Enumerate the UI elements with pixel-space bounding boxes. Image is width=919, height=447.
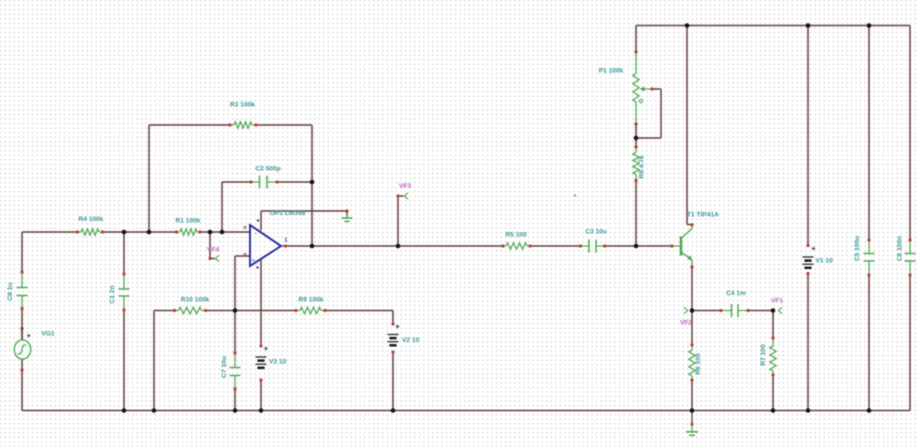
capacitor C8	[17, 270, 28, 310]
label VG1 plus sign	[27, 334, 30, 337]
wire C8 column top	[21, 232, 23, 272]
node output-R8	[634, 244, 639, 249]
svg-text:R8 4.7k: R8 4.7k	[639, 155, 646, 178]
wire P1 bottom to junction	[635, 124, 637, 147]
wire R10 row	[154, 310, 175, 312]
svg-text:C4 1m: C4 1m	[726, 290, 746, 297]
wire V1 column lower	[807, 274, 809, 411]
label C8 value	[7, 283, 14, 301]
svg-text:V2 10: V2 10	[402, 337, 420, 344]
label V2 value	[402, 337, 420, 344]
wire R6 to bottom rail	[691, 380, 693, 411]
wire C6 column lower	[909, 275, 911, 411]
label C3 value	[585, 229, 607, 236]
wire C1 column upper	[123, 232, 125, 274]
node botrail-V1	[806, 408, 811, 413]
svg-text:C5 100u: C5 100u	[854, 236, 861, 261]
wire R7 to bottom rail	[772, 375, 774, 411]
label C4 value	[726, 290, 746, 297]
wire V2 column lower	[392, 352, 394, 411]
wire T1 collector column	[687, 26, 692, 225]
wire C6 column upper	[909, 26, 911, 241]
label R8 value	[639, 155, 646, 178]
resistor R3	[228, 122, 257, 128]
resistor R8	[633, 145, 639, 182]
wire wiper loop vertical	[660, 89, 662, 138]
wire output row C3-base	[605, 245, 672, 247]
node botrail-V3	[259, 408, 264, 413]
resistor R4	[76, 229, 104, 235]
wire C8 to VG1	[21, 309, 23, 341]
wire C7 column lower	[234, 389, 236, 411]
wire C7 column upper	[234, 311, 236, 354]
probe VF4	[208, 255, 219, 261]
wire R7 column upper	[772, 311, 774, 339]
wire C5 column upper	[868, 26, 870, 241]
label R6 value	[695, 353, 702, 375]
svg-text:C2 500p: C2 500p	[255, 166, 280, 173]
resistor R5	[501, 243, 531, 249]
node C2-R3 right	[310, 180, 315, 185]
source VG1	[14, 327, 30, 372]
label R4 value	[79, 216, 104, 223]
label R9 value	[299, 297, 324, 304]
svg-text:OP1 LM358: OP1 LM358	[270, 210, 306, 217]
wire C5 column lower	[868, 275, 870, 411]
wire V2 column upper	[392, 311, 394, 325]
wire P1 top column	[635, 26, 637, 53]
label C2 value	[255, 166, 280, 173]
capacitor C5	[864, 238, 875, 276]
op-amp pin mark V-	[257, 267, 259, 269]
wire op-amp V+ to ground	[261, 210, 347, 212]
label C1 value	[109, 286, 116, 304]
label C6 value	[897, 236, 904, 261]
wire VF4 column	[209, 232, 211, 259]
node input-VF4	[208, 230, 213, 235]
wire input row mid (R4-R1 node)	[103, 231, 177, 233]
probe VF2	[684, 307, 688, 313]
capacitor C4	[719, 304, 749, 317]
capacitor C2	[249, 176, 278, 189]
label V3 value	[269, 359, 287, 366]
node botrail-C1	[122, 408, 127, 413]
label R5 value	[505, 232, 527, 239]
svg-text:C1 2n: C1 2n	[109, 286, 116, 304]
label VG1	[41, 331, 55, 338]
wire top rail	[636, 25, 910, 27]
node VF2	[690, 308, 695, 313]
svg-text:R9 100k: R9 100k	[299, 297, 324, 304]
op-amp OP1	[250, 225, 287, 266]
op-amp pin mark 2	[244, 226, 247, 229]
svg-text:R5 100: R5 100	[505, 232, 527, 239]
probe VF3	[396, 193, 408, 199]
label V2 plus	[396, 325, 400, 329]
resistor R10	[173, 307, 207, 313]
label R7 value	[760, 344, 767, 366]
wire V3 to bottom rail	[260, 380, 262, 411]
svg-text:R3 100k: R3 100k	[230, 102, 255, 109]
label R10 value	[181, 297, 210, 304]
resistor R1	[175, 229, 202, 235]
wire VF2 to C4	[692, 310, 721, 312]
wire VF4 stub	[210, 258, 215, 260]
capacitor C1	[119, 272, 130, 311]
wire input row right (to op-amp inverting input)	[200, 231, 250, 233]
ground at bottom rail	[686, 411, 698, 436]
wire T1 emitter column	[691, 267, 693, 311]
node toprail-V1	[806, 23, 811, 28]
label R3 value	[230, 102, 255, 109]
wire R3 row right	[256, 124, 312, 126]
transistor Q1 T1	[670, 223, 693, 269]
wire R3 right column	[311, 125, 313, 246]
node R10-R9-C7	[233, 308, 238, 313]
node output-VF3	[396, 244, 401, 249]
svg-text:R10 100k: R10 100k	[181, 297, 210, 304]
svg-text:R6 100: R6 100	[695, 353, 702, 375]
wire R9 right row	[325, 310, 393, 312]
wire C2 row left	[222, 181, 251, 183]
capacitor C6	[905, 238, 916, 276]
capacitor C3	[579, 240, 606, 253]
label VF4	[207, 247, 219, 254]
label P1 value	[599, 68, 624, 75]
node botrail-C7	[233, 408, 238, 413]
wire VF3 stub	[398, 195, 404, 197]
label T1 name	[687, 212, 719, 219]
node toprail-C5	[867, 23, 872, 28]
svg-text:VG1: VG1	[41, 331, 55, 338]
svg-text:C3 10u: C3 10u	[585, 229, 607, 236]
svg-text:1: 1	[285, 238, 288, 244]
wire bottom rail	[22, 410, 910, 412]
label R1 value	[176, 218, 201, 225]
svg-text:P1 100k: P1 100k	[599, 68, 624, 75]
node input-R3	[147, 230, 152, 235]
svg-text:C7 10u: C7 10u	[221, 356, 228, 378]
wire P1 wiper tap	[652, 88, 661, 90]
label OP1 name	[270, 210, 306, 217]
wire V1 column upper	[807, 26, 809, 246]
node P1 wiper loop	[634, 136, 639, 141]
wire R3 left column	[148, 125, 150, 232]
label VF3	[399, 183, 411, 190]
probe VF1	[778, 307, 782, 313]
wire input row left	[22, 231, 78, 233]
node input-C2	[220, 230, 225, 235]
wire non-inverting input	[235, 255, 250, 257]
label VF2	[680, 320, 692, 327]
wire R6 column upper	[691, 311, 693, 346]
wire R8 to output row	[635, 181, 637, 247]
wire C4 to VF1	[748, 310, 773, 312]
svg-text:VF2: VF2	[680, 320, 692, 327]
wire op-amp V- column	[260, 259, 262, 346]
resistor R9	[294, 307, 326, 313]
svg-text:T1 TIP41A: T1 TIP41A	[687, 212, 719, 219]
resistor R6	[689, 343, 695, 381]
label V1 plus	[812, 247, 816, 251]
ground at op-amp V+	[342, 209, 353, 221]
svg-text:V3 10: V3 10	[269, 359, 287, 366]
battery V3	[256, 344, 267, 381]
label VF1	[771, 298, 783, 305]
wire output row	[286, 245, 505, 247]
svg-text:+: +	[252, 259, 256, 265]
svg-text:R1 100k: R1 100k	[176, 218, 201, 225]
node input-C1	[122, 230, 127, 235]
wire C2 row right	[277, 181, 312, 183]
battery V2	[388, 322, 399, 353]
label V1 value	[816, 258, 834, 265]
wire R3 row left	[149, 124, 230, 126]
node botrail-R6	[690, 408, 695, 413]
wire C1 column lower	[123, 310, 125, 411]
wire VF3 column	[397, 196, 399, 246]
wire VG1 to bottom rail	[21, 359, 23, 411]
capacitor C7	[230, 351, 241, 390]
potentiometer P1	[633, 50, 654, 125]
label C5 value	[854, 236, 861, 261]
svg-text:-: -	[255, 232, 257, 238]
wire wiper loop bottom	[636, 137, 661, 139]
svg-text:C6 100n: C6 100n	[897, 236, 904, 261]
wire output row R5-C3	[530, 245, 581, 247]
wire R10-R9 node row	[206, 310, 297, 312]
battery V1	[803, 244, 814, 275]
svg-text:VF3: VF3	[399, 183, 411, 190]
label V3 plus	[264, 347, 268, 351]
op-amp pin mark 1	[285, 238, 288, 244]
node toprail-T1	[685, 23, 690, 28]
resistor R7	[770, 336, 776, 376]
node VF1	[771, 308, 776, 313]
node botrail-R10	[152, 408, 157, 413]
node botrail-R7	[771, 408, 776, 413]
node output-R3	[310, 244, 315, 249]
wire R10 left column	[153, 311, 155, 411]
svg-text:V1 10: V1 10	[816, 258, 834, 265]
svg-text:VF1: VF1	[771, 298, 783, 305]
label C7 value	[221, 356, 228, 378]
svg-text:R4 100k: R4 100k	[79, 216, 104, 223]
wire C2 left column	[221, 182, 223, 232]
wire non-inverting column	[234, 256, 236, 311]
svg-text:C8 1u: C8 1u	[7, 283, 14, 301]
op-amp pin mark V+	[257, 220, 259, 222]
svg-text:R7 100: R7 100	[760, 344, 767, 366]
wire op-amp V+ stub	[260, 211, 262, 231]
op-amp pin mark 3	[244, 253, 247, 256]
svg-text:VF4: VF4	[207, 247, 219, 254]
node botrail-C5	[867, 408, 872, 413]
node botrail-V2	[391, 408, 396, 413]
stray mark	[574, 194, 576, 196]
